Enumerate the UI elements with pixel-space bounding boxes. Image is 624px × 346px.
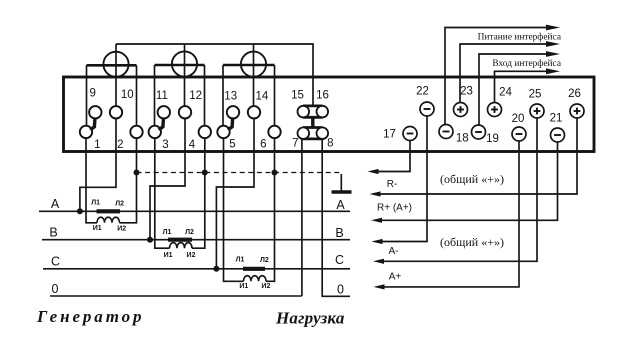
svg-text:14: 14 bbox=[256, 91, 269, 103]
minus sign 22 bbox=[424, 108, 431, 110]
svg-text:0: 0 bbox=[52, 282, 59, 296]
svg-text:9: 9 bbox=[89, 88, 95, 100]
terminal 15 top pair bbox=[303, 105, 323, 108]
CT TA2 primary bar bbox=[168, 238, 192, 242]
ground lead bbox=[340, 174, 342, 191]
svg-text:13: 13 bbox=[224, 91, 237, 103]
CT TA3 primary bar bbox=[243, 267, 265, 271]
link bar 15/16 middle bbox=[311, 116, 314, 128]
svg-text:18: 18 bbox=[456, 133, 469, 145]
transformer TA3 primary chord bbox=[223, 64, 275, 67]
svg-text:(общий «+»): (общий «+») bbox=[440, 235, 504, 249]
svg-text:R-: R- bbox=[387, 179, 398, 190]
neutral line 0 bbox=[50, 295, 302, 297]
plus sign 25 bbox=[534, 110, 541, 112]
svg-text:И2: И2 bbox=[117, 226, 126, 233]
svg-text:7: 7 bbox=[292, 138, 298, 150]
arrowhead 23 bbox=[546, 41, 560, 47]
arrowhead interface input bbox=[546, 51, 560, 57]
svg-text:15: 15 bbox=[291, 90, 304, 102]
wire terminal 23 to arrow bbox=[460, 44, 547, 102]
terminal 1 bbox=[80, 126, 92, 138]
CT TA1 primary bar bbox=[97, 209, 121, 213]
wire CT2 center vertical to terminal 12 bbox=[184, 44, 186, 106]
interface terminals 17-26 bbox=[403, 102, 584, 142]
jumper link terminal 11 to 3 bbox=[159, 118, 164, 130]
jumper link terminal 9 to 1 bbox=[90, 118, 95, 130]
terminal block 15/16 bbox=[298, 106, 329, 139]
svg-text:И1: И1 bbox=[164, 252, 173, 259]
terminal 14 bbox=[248, 106, 260, 118]
svg-text:R+ (A+): R+ (A+) bbox=[377, 203, 412, 214]
wire terminal 22 down to A- arrow bbox=[382, 116, 427, 241]
terminal 4 bbox=[199, 126, 211, 138]
wire terminal 8 down to neutral stub bbox=[322, 139, 350, 296]
svg-text:Л2: Л2 bbox=[185, 229, 194, 236]
terminal 23 plus bbox=[454, 103, 468, 117]
svg-text:21: 21 bbox=[550, 113, 563, 125]
minus sign 20 bbox=[516, 133, 523, 135]
wire chord TA1 left end down to terminal 1 bbox=[86, 65, 88, 126]
svg-text:Л1: Л1 bbox=[163, 229, 172, 236]
svg-text:10: 10 bbox=[121, 89, 134, 101]
arrowhead R- bbox=[368, 169, 379, 174]
svg-text:4: 4 bbox=[189, 139, 196, 151]
svg-text:A-: A- bbox=[389, 246, 399, 257]
svg-text:Л1: Л1 bbox=[91, 200, 100, 207]
wire terminal 4 down to CT TA2 secondary right riser bbox=[192, 138, 205, 248]
node dot dashed at terminal 6 wire bbox=[272, 170, 278, 176]
svg-text:16: 16 bbox=[316, 90, 329, 102]
wire terminal 24 to arrow bbox=[495, 71, 547, 102]
terminal 18 minus bbox=[439, 125, 453, 139]
svg-text:В: В bbox=[335, 226, 343, 240]
terminal 2 bbox=[130, 126, 142, 138]
terminal 6 bbox=[268, 126, 280, 138]
svg-text:1: 1 bbox=[94, 139, 100, 151]
wire terminal 20 down to A+ arrow bbox=[384, 141, 519, 287]
svg-text:Л2: Л2 bbox=[115, 201, 124, 208]
wire terminal 25 down to arrow bbox=[384, 118, 538, 261]
CT symbol TA1 circle bbox=[103, 52, 128, 77]
svg-text:А: А bbox=[51, 197, 60, 211]
wire terminal 18 to interface power arrow bbox=[445, 28, 547, 125]
wire terminal 7 down to neutral line bbox=[301, 139, 303, 296]
svg-text:6: 6 bbox=[260, 139, 266, 151]
minus sign 18 bbox=[443, 131, 450, 133]
arrowhead A+ bbox=[374, 284, 385, 289]
wire chord TA2 left end down to terminal 3 bbox=[154, 65, 156, 126]
arrowhead common 25 bbox=[373, 259, 384, 264]
arrowhead 24 bbox=[546, 68, 560, 74]
svg-text:3: 3 bbox=[162, 139, 168, 151]
meter box bbox=[64, 77, 595, 152]
wire CT3 center vertical to terminal 14 bbox=[253, 44, 255, 106]
svg-text:26: 26 bbox=[568, 88, 581, 100]
svg-text:Л2: Л2 bbox=[260, 257, 269, 264]
svg-text:2: 2 bbox=[117, 139, 123, 151]
terminal 13 bbox=[227, 106, 239, 118]
arrowhead common 21 bbox=[371, 218, 382, 223]
svg-text:Нагрузка: Нагрузка bbox=[275, 309, 345, 328]
svg-text:19: 19 bbox=[486, 133, 499, 145]
svg-text:8: 8 bbox=[327, 138, 333, 150]
wire terminal 1 down to CT TA1 secondary bbox=[86, 138, 97, 223]
svg-text:20: 20 bbox=[512, 113, 525, 125]
arrowhead A- bbox=[372, 239, 383, 244]
svg-text:И2: И2 bbox=[187, 252, 196, 259]
node dot phase B tap bbox=[147, 237, 153, 243]
svg-text:И1: И1 bbox=[93, 225, 102, 232]
svg-text:22: 22 bbox=[416, 86, 429, 98]
svg-text:23: 23 bbox=[460, 86, 473, 98]
svg-text:А: А bbox=[336, 198, 345, 212]
jumper link terminal 13 to 5 bbox=[228, 118, 233, 130]
phase line B bbox=[42, 239, 350, 241]
wire terminal 14 voltage tap to phase C bbox=[216, 119, 254, 269]
transformer TA2 primary chord bbox=[155, 64, 205, 67]
plus sign 24 bbox=[491, 109, 498, 111]
terminal 26 plus bbox=[570, 104, 584, 118]
node dot phase A tap bbox=[77, 208, 83, 214]
terminal 17 minus bbox=[403, 127, 417, 141]
terminal 11 bbox=[158, 106, 170, 118]
minus sign 19 bbox=[475, 131, 482, 133]
terminal 12 bbox=[179, 106, 191, 118]
terminal 5 bbox=[217, 126, 229, 138]
minus sign 21 bbox=[554, 134, 561, 136]
svg-text:12: 12 bbox=[189, 90, 202, 102]
terminal 21 minus bbox=[551, 128, 565, 142]
arrowhead interface power supply bbox=[546, 25, 560, 31]
svg-text:11: 11 bbox=[156, 90, 168, 102]
terminal 9 bbox=[89, 106, 101, 118]
svg-text:И2: И2 bbox=[261, 283, 270, 290]
terminal 3 bbox=[149, 126, 161, 138]
svg-text:17: 17 bbox=[383, 129, 396, 141]
node dot phase C tap bbox=[213, 266, 219, 272]
svg-text:0: 0 bbox=[337, 283, 344, 297]
CT TA1 secondary coil bbox=[97, 217, 120, 223]
dashed link line of voltage taps bbox=[137, 172, 342, 174]
arrowhead R+ bbox=[370, 191, 381, 196]
wire terminal 3 down to CT TA2 secondary bbox=[155, 138, 170, 248]
wire terminal 5 down to CT TA3 secondary bbox=[224, 138, 244, 281]
CT TA2 secondary coil bbox=[170, 243, 193, 249]
terminal 22 minus bbox=[420, 102, 434, 116]
svg-text:24: 24 bbox=[499, 86, 512, 98]
wire terminal 2 down to CT TA1 secondary right riser bbox=[120, 138, 137, 223]
svg-text:5: 5 bbox=[229, 139, 235, 151]
CT TA3 secondary coil bbox=[244, 276, 267, 282]
svg-text:И1: И1 bbox=[239, 283, 248, 290]
wire terminal 21 down to arrow bbox=[382, 142, 558, 220]
wire chord TA2 right end down to terminal 4 bbox=[204, 65, 206, 126]
svg-text:Л1: Л1 bbox=[236, 256, 245, 263]
wire terminal 6 down to CT TA3 secondary right riser bbox=[266, 138, 275, 281]
terminal 10 bbox=[110, 106, 122, 118]
svg-text:С: С bbox=[335, 253, 344, 267]
svg-text:С: С bbox=[51, 255, 60, 269]
svg-text:Генератор: Генератор bbox=[36, 307, 144, 326]
terminal 20 minus bbox=[512, 127, 526, 141]
node dot dashed at terminal 2 wire bbox=[134, 170, 140, 176]
wire terminal 26 down to R+ arrow bbox=[380, 118, 577, 194]
terminal 25 plus bbox=[530, 104, 544, 118]
svg-text:(общий «+»): (общий «+») bbox=[440, 172, 504, 186]
wire CT1 center vertical to terminal 10 bbox=[115, 44, 117, 106]
phase line C bbox=[43, 268, 350, 270]
svg-text:A+: A+ bbox=[389, 272, 402, 283]
wire top bus from CT1 to terminal 15/16 drop bbox=[116, 44, 313, 106]
minus sign 17 bbox=[407, 133, 414, 135]
svg-text:Питание интерфейса: Питание интерфейса bbox=[478, 32, 562, 43]
terminal 16 bottom pair bbox=[303, 126, 323, 129]
CT symbol TA2 circle bbox=[172, 51, 197, 76]
wire terminal 19 to interface input arrow bbox=[479, 54, 547, 125]
CT symbol TA3 circle bbox=[241, 52, 266, 77]
transformer TA1 primary chord bbox=[87, 64, 137, 67]
wire chord TA3 right end down to terminal 6 bbox=[274, 65, 276, 126]
wire chord TA1 right end down to terminal 2 bbox=[136, 65, 138, 126]
terminal 24 plus bbox=[488, 103, 502, 117]
wire terminal 12 voltage tap to phase B bbox=[150, 119, 185, 240]
terminal 19 minus bbox=[472, 125, 486, 139]
svg-text:В: В bbox=[49, 226, 57, 240]
plus sign 26 bbox=[574, 110, 581, 112]
svg-text:Вход интерфейса: Вход интерфейса bbox=[492, 58, 561, 69]
svg-text:25: 25 bbox=[529, 88, 542, 100]
wire chord TA3 left end down to terminal 5 bbox=[222, 65, 224, 126]
wire terminal 17 down to R- arrow bbox=[378, 141, 410, 172]
plus sign 23 bbox=[457, 109, 464, 111]
node dot dashed at terminal 4 wire bbox=[202, 170, 208, 176]
wire terminal 10 voltage tap to phase A bbox=[80, 119, 116, 212]
phase line A bbox=[39, 210, 350, 212]
ground bar bbox=[332, 190, 352, 194]
